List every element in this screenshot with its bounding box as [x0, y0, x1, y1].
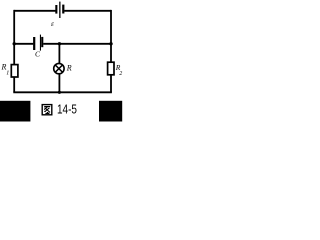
wire bottom [13, 91, 112, 93]
resistor R1 [11, 65, 18, 77]
wire lamp upper [58, 44, 60, 63]
caption black bar left [0, 101, 30, 122]
node junction right-middle [109, 42, 112, 45]
node junction center-middle [58, 42, 61, 45]
capacitor C1 plates [33, 35, 43, 51]
wire right vertical [110, 10, 112, 92]
wire lamp lower [58, 74, 60, 92]
svg-text:C: C [35, 50, 41, 59]
wire left vertical [13, 10, 15, 92]
node junction bottom-center [58, 91, 61, 94]
svg-text:1: 1 [6, 70, 9, 76]
battery E [55, 2, 64, 18]
caption black bar right [99, 101, 122, 122]
lamp R (circle with X) [54, 63, 64, 73]
node junction left-middle [13, 42, 16, 45]
resistor R2 [108, 62, 114, 75]
svg-text:ε: ε [51, 19, 54, 28]
svg-text:14-5: 14-5 [57, 102, 77, 117]
wire top-right segment [64, 10, 111, 12]
wire middle-left to capacitor [14, 43, 33, 45]
svg-text:2: 2 [119, 71, 122, 77]
caption glyph 图 [42, 105, 52, 115]
wire capacitor to right [43, 43, 111, 45]
svg-text:R: R [66, 63, 72, 72]
wire top-left segment [14, 10, 55, 12]
